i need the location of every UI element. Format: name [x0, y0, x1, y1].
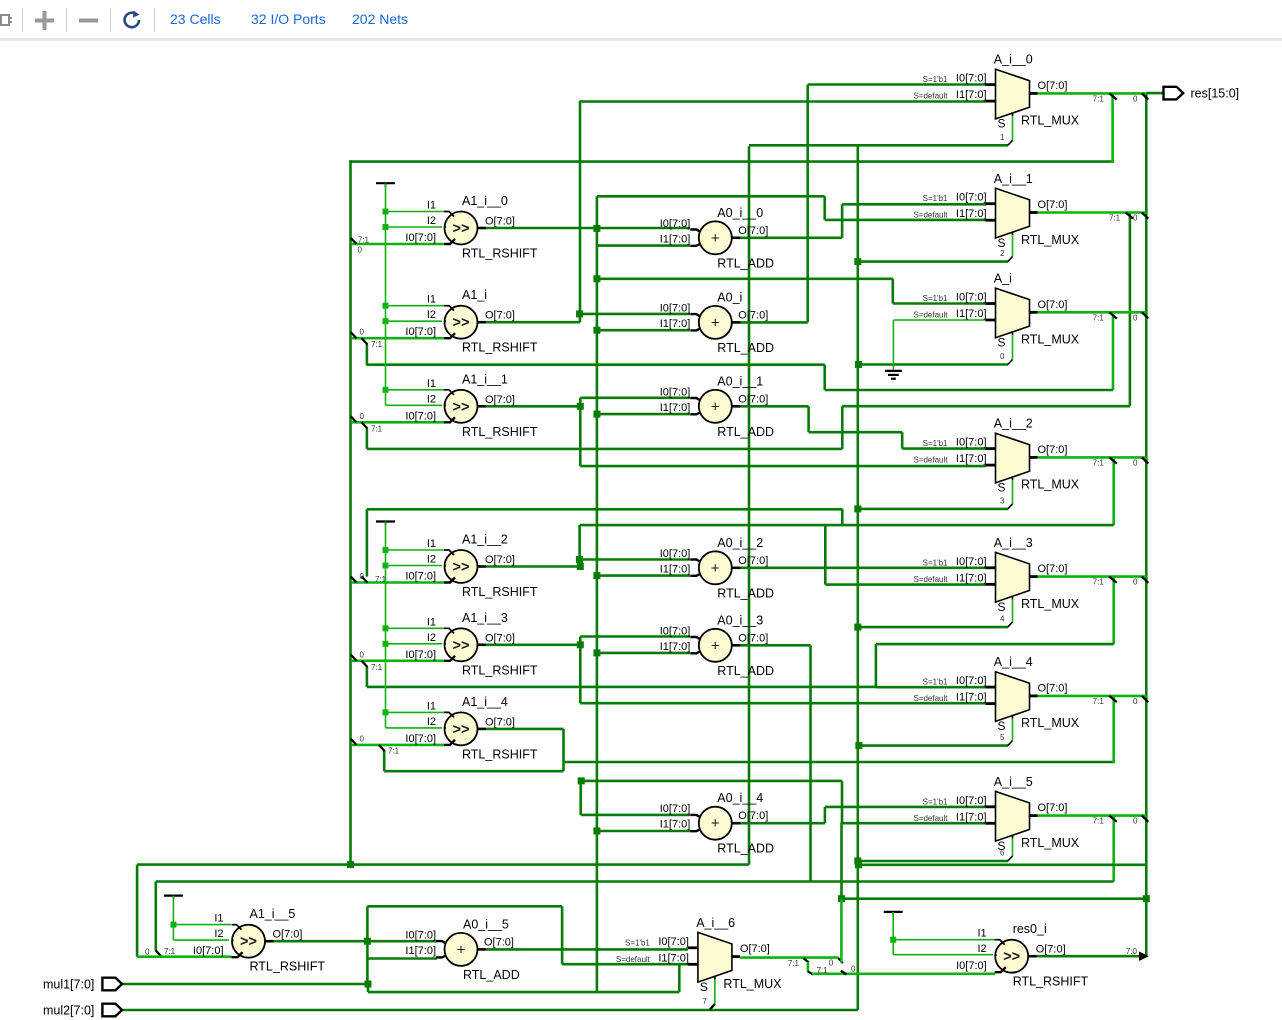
wire A0_i__3.I0 [580, 635, 690, 638]
wire A_i__1.I0 [842, 203, 986, 206]
svg-text:0: 0 [1133, 94, 1138, 103]
wire x137 vertical [136, 865, 139, 957]
wire riser x367 upper [366, 906, 369, 941]
svg-text:I1[7:0]: I1[7:0] [405, 945, 436, 957]
svg-text:I0[7:0]: I0[7:0] [956, 556, 987, 568]
shifter A1_i__3 (RTL_RSHIFT) [405, 611, 537, 678]
svg-text:I1[7:0]: I1[7:0] [956, 208, 987, 220]
junction const I1 [383, 209, 389, 215]
svg-text:I0[7:0]: I0[7:0] [405, 571, 436, 583]
toolbar zoom-in icon [33, 9, 56, 32]
svg-text:I1[7:0]: I1[7:0] [956, 453, 987, 465]
wire A0_i__5.I1 [367, 957, 437, 960]
wire x156 vertical [155, 882, 158, 951]
svg-text:7:1: 7:1 [1093, 94, 1105, 103]
wire A_i__0 7:1 vertical [1111, 93, 1114, 163]
wire jog y432 [809, 431, 903, 434]
junction const I1 [383, 709, 389, 715]
svg-text:RTL_RSHIFT: RTL_RSHIFT [462, 747, 538, 761]
wire x562 vertical [561, 906, 564, 964]
svg-text:I1: I1 [978, 928, 987, 940]
svg-text:I2: I2 [427, 215, 436, 227]
wire A_i__6 lower run to res0_i.I0 [812, 972, 995, 975]
wire S of A_i__4 [1012, 719, 1014, 741]
wire S of A_i__2 [1012, 480, 1014, 504]
junction y864 right [855, 861, 862, 868]
svg-text:I1: I1 [427, 200, 436, 212]
svg-text:I1: I1 [427, 538, 436, 550]
wire A_i__1.I1 step [823, 196, 826, 220]
svg-text:4: 4 [1000, 615, 1005, 624]
wire A_i__0.I1 [580, 100, 986, 103]
svg-text:S: S [998, 481, 1006, 495]
svg-text:mul2[7:0]: mul2[7:0] [43, 1004, 94, 1018]
junction trunk bottom [347, 861, 354, 868]
adder A0_i__3 (RTL_ADD) [660, 613, 774, 678]
svg-text:I0[7:0]: I0[7:0] [956, 73, 987, 85]
svg-text:S=1'b1: S=1'b1 [923, 678, 948, 687]
adder A0_i__5 (RTL_ADD) [405, 917, 519, 982]
svg-text:0: 0 [1000, 352, 1005, 361]
svg-text:>>: >> [453, 221, 470, 237]
svg-text:>>: >> [453, 315, 470, 331]
svg-text:I0[7:0]: I0[7:0] [405, 326, 436, 338]
svg-text:I0[7:0]: I0[7:0] [660, 548, 691, 560]
junction A0_i__2.I0 [576, 556, 583, 563]
junction mul1 x368 [365, 981, 372, 988]
svg-text:I1: I1 [427, 378, 436, 390]
svg-text:S: S [998, 117, 1006, 131]
svg-text:7:1: 7:1 [1093, 697, 1105, 706]
svg-text:RTL_MUX: RTL_MUX [1021, 233, 1080, 247]
wire mux row 5 output [1038, 695, 1147, 698]
wire A0_i__2.O to A_i__3.I0 [740, 566, 986, 569]
svg-text:I0[7:0]: I0[7:0] [405, 232, 436, 244]
wire A1_i.O [486, 321, 580, 324]
junction const I1 [383, 303, 389, 309]
wire const to I1 [386, 389, 445, 391]
svg-text:0: 0 [145, 948, 150, 957]
wire const to I2 [386, 727, 443, 729]
svg-text:+: + [711, 398, 720, 415]
wire A_i__3.I1 [825, 583, 986, 586]
adder A0_i__4 (RTL_ADD) [660, 791, 774, 856]
svg-text:I0[7:0]: I0[7:0] [660, 625, 691, 637]
wire riser to A_i__5.I1 bright part [840, 899, 843, 963]
junction A0_i__2.I1 [593, 572, 600, 579]
svg-text:A_i__1: A_i__1 [994, 172, 1033, 186]
constant one symbol lower [376, 520, 395, 522]
svg-text:I1[7:0]: I1[7:0] [956, 308, 987, 320]
svg-text:A_i__0: A_i__0 [994, 53, 1033, 67]
wire A_i__1.I1 [825, 219, 986, 222]
wire A_i__0.I1 riser x580 [579, 101, 582, 323]
junction const I1 [383, 625, 389, 631]
svg-text:A0_i__0: A0_i__0 [717, 206, 763, 220]
wire A_i__3 7:1 vertical [1112, 577, 1115, 645]
input port wire mul2 [122, 1009, 858, 1012]
wire riser to A0_i__1.I0 and A_i__2.I1 [579, 398, 582, 466]
svg-text:S=default: S=default [913, 211, 948, 220]
svg-text:RTL_RSHIFT: RTL_RSHIFT [462, 585, 538, 599]
wire A0_i__1.O drop [807, 406, 810, 432]
svg-text:O[7:0]: O[7:0] [1038, 199, 1068, 211]
shifter A1_i__0 (RTL_RSHIFT) [405, 194, 537, 261]
svg-text:>>: >> [453, 399, 470, 415]
svg-text:A1_i__4: A1_i__4 [462, 695, 508, 709]
wire trunk to A1 shifter row 5 I0 [352, 744, 444, 747]
svg-text:I1: I1 [214, 913, 223, 925]
svg-text:+: + [711, 560, 720, 577]
svg-text:O[7:0]: O[7:0] [273, 929, 303, 941]
svg-text:O[7:0]: O[7:0] [738, 393, 768, 405]
svg-text:+: + [711, 230, 720, 247]
svg-text:S=default: S=default [913, 814, 948, 823]
svg-text:+: + [711, 314, 720, 331]
wire riser x810 [809, 645, 812, 881]
wire A0_i__2.I0 [580, 558, 690, 561]
svg-text:I1: I1 [427, 616, 436, 628]
svg-text:O[7:0]: O[7:0] [738, 810, 768, 822]
wire mux row 4 output [1038, 575, 1147, 578]
svg-text:O[7:0]: O[7:0] [1038, 563, 1068, 575]
svg-text:0: 0 [1133, 817, 1138, 826]
wire A_i.I0 riser [891, 279, 894, 304]
wire A_i__4 7:1 horizontal [564, 761, 1114, 764]
svg-text:A0_i: A0_i [717, 290, 742, 304]
svg-text:7:1: 7:1 [1093, 817, 1105, 826]
wire const to I2 [386, 643, 443, 645]
junction A1_i__2.O [577, 563, 584, 570]
svg-text:O[7:0]: O[7:0] [485, 554, 515, 566]
wire A1_i__3.O [486, 643, 580, 646]
wire A_i__6 7:1 drop [807, 962, 810, 972]
wire A_i__5 7:1 vertical [1112, 816, 1115, 882]
svg-text:RTL_MUX: RTL_MUX [1021, 716, 1080, 730]
wire A1_i__5.O to A0_i__5.I0 [274, 940, 438, 943]
svg-text:I1[7:0]: I1[7:0] [660, 641, 691, 653]
wire A1_i__5.I2 [173, 939, 229, 941]
wire A0_i__4.I0 [581, 814, 690, 817]
wire const res0 [892, 912, 894, 955]
wire x841 vertical [840, 823, 843, 899]
svg-text:S=1'b1: S=1'b1 [923, 294, 948, 303]
svg-text:7:1: 7:1 [371, 340, 383, 349]
svg-text:RTL_ADD: RTL_ADD [717, 341, 774, 355]
svg-text:RTL_MUX: RTL_MUX [1021, 333, 1080, 347]
svg-text:I0[7:0]: I0[7:0] [956, 675, 987, 687]
wire const to I2 [386, 565, 443, 567]
svg-text:I0[7:0]: I0[7:0] [956, 795, 987, 807]
wire A1_i__4.O [486, 728, 564, 731]
junction A0_i.I0 [576, 310, 583, 317]
mux A_i__4 (RTL_MUX) [913, 655, 1079, 742]
svg-text:A_i__6: A_i__6 [696, 916, 735, 930]
svg-text:I1[7:0]: I1[7:0] [956, 572, 987, 584]
wire A1_i__3 7:1 branch [366, 667, 369, 687]
wire A_i__5.I0 [825, 806, 986, 809]
junction y279 [593, 275, 600, 282]
wire drop x842 c [841, 781, 844, 823]
wire A_i__1 7:1 vertical [1129, 212, 1132, 406]
svg-text:+: + [711, 637, 720, 654]
svg-text:RTL_ADD: RTL_ADD [717, 842, 774, 856]
svg-text:RTL_ADD: RTL_ADD [717, 425, 774, 439]
svg-text:S=default: S=default [616, 955, 651, 964]
wire A_i__0 7:1 branch horizontal [349, 160, 1114, 163]
junction A1_i__3.O [577, 641, 584, 648]
input port wire mul1 [122, 983, 368, 986]
svg-text:I0[7:0]: I0[7:0] [660, 803, 691, 815]
wire A_i__3 7:1 horizontal [876, 643, 1114, 646]
svg-text:S: S [998, 336, 1006, 350]
svg-text:>>: >> [453, 638, 470, 654]
svg-text:A_i__3: A_i__3 [994, 536, 1033, 550]
svg-text:>>: >> [1003, 949, 1020, 965]
svg-text:mul1[7:0]: mul1[7:0] [43, 978, 94, 992]
wire A_i__1 7:1 horizontal [842, 405, 1130, 408]
wire A1_i__4.O vertical [562, 729, 565, 771]
svg-text:I1[7:0]: I1[7:0] [956, 692, 987, 704]
svg-text:O[7:0]: O[7:0] [738, 632, 768, 644]
svg-text:I2: I2 [427, 393, 436, 405]
wire to A_i__4.I1 [580, 702, 986, 705]
svg-text:RTL_RSHIFT: RTL_RSHIFT [462, 247, 538, 261]
svg-text:7:1: 7:1 [164, 947, 176, 956]
wire mul1 jog lower [368, 991, 679, 994]
junction const I2 [383, 224, 389, 230]
wire A_i__2.I0 [902, 447, 986, 450]
adder A0_i__2 (RTL_ADD) [660, 536, 774, 601]
wire mul1 riser to A_i__6.I1 [678, 964, 681, 992]
svg-text:O[7:0]: O[7:0] [1038, 80, 1068, 92]
svg-text:S=1'b1: S=1'b1 [923, 797, 948, 806]
wire A0_i__5.O to A_i__6.I0 [486, 948, 688, 951]
wire trunk to A1 shifter row 2 I0 [352, 421, 444, 424]
wire S of A_i__5 [1012, 838, 1014, 856]
svg-text:S=default: S=default [913, 92, 948, 101]
svg-text:0: 0 [1133, 214, 1138, 223]
junction const I1 [383, 387, 389, 393]
wire A_i__1.I0 riser [841, 204, 844, 238]
svg-text:res[15:0]: res[15:0] [1191, 87, 1240, 101]
svg-text:I2: I2 [427, 632, 436, 644]
wire res0_i.O [1037, 955, 1141, 958]
svg-text:7:1: 7:1 [817, 966, 829, 975]
svg-text:A1_i__2: A1_i__2 [462, 533, 508, 547]
wire drop x824 to A_i 7:1 [823, 365, 826, 390]
junction const res0 [890, 937, 896, 943]
svg-text:RTL_ADD: RTL_ADD [717, 256, 774, 270]
svg-text:I1: I1 [427, 294, 436, 306]
wire y864 horizontal right [859, 863, 1147, 866]
svg-text:A1_i__3: A1_i__3 [462, 611, 508, 625]
wire mux row 2 output [1038, 311, 1147, 314]
wire A0_i__0.O [740, 237, 842, 240]
wire A_i__4.I0 [876, 686, 986, 689]
svg-text:RTL_ADD: RTL_ADD [717, 664, 774, 678]
junction A1_i__1.O [577, 403, 584, 410]
wire y906 horizontal [367, 905, 562, 908]
constant one symbol upper [376, 182, 395, 184]
wire A0_i__4.I1 [597, 830, 691, 833]
svg-text:RTL_RSHIFT: RTL_RSHIFT [462, 663, 538, 677]
svg-text:I1[7:0]: I1[7:0] [658, 952, 689, 964]
svg-text:O[7:0]: O[7:0] [1038, 802, 1068, 814]
adder A0_i__0 (RTL_ADD) [660, 206, 774, 270]
wire trunk to A1 shifter row 0 I0 [352, 243, 444, 246]
wire mux row 3 output [1038, 456, 1147, 459]
svg-text:I0[7:0]: I0[7:0] [405, 410, 436, 422]
wire mux row 1 output [1038, 211, 1147, 214]
wire A_i__5.I1 [842, 822, 986, 825]
wire const to I2 [386, 404, 443, 406]
junction x841 y899 [838, 895, 845, 902]
wire res0_i.I1 [893, 939, 995, 941]
wire A0_i__2.I1 [597, 574, 690, 577]
svg-text:O[7:0]: O[7:0] [485, 310, 515, 322]
wire A_i__4 7:1 vertical [1112, 696, 1115, 763]
wire A1_i__5.I1 [173, 924, 231, 926]
mux A_i__3 (RTL_MUX) [913, 536, 1079, 624]
shifter A1_i__4 (RTL_RSHIFT) [405, 695, 537, 762]
svg-text:I1[7:0]: I1[7:0] [660, 563, 691, 575]
toolbar zoom-out icon [77, 9, 100, 32]
wire A1_i__2 7:1 branch from above [366, 509, 369, 576]
svg-text:S: S [998, 719, 1006, 733]
wire A_i__5.I0 riser [824, 807, 827, 823]
svg-text:RTL_MUX: RTL_MUX [1021, 836, 1080, 850]
svg-text:S=default: S=default [913, 456, 948, 465]
svg-text:RTL_MUX: RTL_MUX [1021, 478, 1080, 492]
wire mul1 trunk vertical [349, 160, 352, 864]
junction const I2 [383, 318, 389, 324]
wire S of A_i [1012, 335, 1014, 359]
svg-text:I0[7:0]: I0[7:0] [956, 292, 987, 304]
shifter A1_i (RTL_RSHIFT) [405, 288, 537, 355]
svg-text:RTL_RSHIFT: RTL_RSHIFT [462, 425, 538, 439]
svg-text:I0[7:0]: I0[7:0] [956, 960, 987, 972]
wire trunk to A1 shifter row 4 I0 [352, 659, 444, 662]
wire constant chain upper [385, 183, 387, 405]
input port mul2[7:0] [102, 1004, 122, 1017]
svg-text:0: 0 [1133, 313, 1138, 322]
wire A_i__1 S net [858, 260, 1008, 263]
wire A1_i__1.O [486, 405, 580, 408]
svg-text:RTL_RSHIFT: RTL_RSHIFT [462, 341, 538, 355]
wire const chain bottom [172, 896, 174, 941]
svg-text:A1_i__0: A1_i__0 [462, 194, 508, 208]
wire A1_i__4 7:1 branch [383, 751, 386, 771]
wire A0_i__4.I0 riser [579, 781, 582, 815]
svg-text:0: 0 [1133, 697, 1138, 706]
svg-text:A0_i__3: A0_i__3 [717, 613, 763, 627]
mux A_i__1 (RTL_MUX) [913, 172, 1079, 258]
wire A1_i 7:1 branch [366, 344, 369, 365]
junction A0_i.I1 [593, 327, 600, 334]
wire A_i__2 7:1 vertical [1112, 459, 1115, 525]
svg-text:0: 0 [360, 328, 365, 337]
svg-text:S=default: S=default [913, 575, 948, 584]
svg-text:I1[7:0]: I1[7:0] [956, 89, 987, 101]
junction S net row6 [854, 858, 861, 865]
wire A_i__6.I1 [562, 963, 690, 966]
wire A_i 7:1 horizontal [825, 389, 1113, 392]
wire A_i__0 S net [749, 144, 1008, 147]
svg-text:A_i__5: A_i__5 [994, 775, 1033, 789]
junction A0_i__3.I1 [593, 649, 600, 656]
svg-text:I0[7:0]: I0[7:0] [405, 929, 436, 941]
svg-text:O[7:0]: O[7:0] [485, 632, 515, 644]
svg-text:S: S [700, 980, 708, 994]
wire A_i__4 S net [858, 744, 1008, 747]
svg-text:S=1'b1: S=1'b1 [923, 439, 948, 448]
junction A0_i__4.I1 [593, 828, 600, 835]
wire to A_i.I0 [597, 277, 893, 280]
svg-text:7:1: 7:1 [788, 959, 800, 968]
adder A0_i__1 (RTL_ADD) [660, 374, 774, 439]
svg-text:2: 2 [1000, 249, 1005, 258]
wire mux row 6 output [1038, 814, 1147, 817]
bus tap row 5 [351, 739, 357, 745]
junction A0_i__0.I0 [593, 225, 600, 232]
wire A0_i__0.I1 [597, 244, 690, 247]
svg-text:RTL_MUX: RTL_MUX [1021, 597, 1080, 611]
wire horizontal y781 [581, 780, 842, 783]
svg-text:I2: I2 [427, 716, 436, 728]
wire A1_i__1 7:1 branch [366, 428, 369, 449]
wire drop x902 [901, 432, 904, 448]
junction S net row4 [854, 624, 861, 631]
svg-text:7:1: 7:1 [1093, 578, 1105, 587]
svg-text:I1[7:0]: I1[7:0] [660, 402, 691, 414]
svg-text:I0[7:0]: I0[7:0] [658, 936, 689, 948]
svg-text:0: 0 [360, 734, 365, 743]
svg-text:RTL_RSHIFT: RTL_RSHIFT [250, 960, 326, 974]
svg-text:I0[7:0]: I0[7:0] [405, 733, 436, 745]
svg-text:0: 0 [851, 964, 856, 973]
wire A_i__2 S net [858, 508, 1008, 511]
shifter res0_i (RTL_RSHIFT) [956, 922, 1088, 989]
wire A0_i.O [740, 321, 808, 324]
svg-text:O[7:0]: O[7:0] [1038, 299, 1068, 311]
ground symbol [885, 371, 902, 379]
svg-text:>>: >> [453, 722, 470, 738]
wire const to I1 [386, 305, 445, 307]
svg-text:5: 5 [1000, 733, 1005, 742]
svg-text:7:1: 7:1 [371, 663, 383, 672]
wire vertical x749 [748, 146, 751, 864]
svg-text:I1[7:0]: I1[7:0] [660, 318, 691, 330]
svg-text:7:1: 7:1 [1093, 313, 1105, 322]
junction S net A_i [855, 361, 862, 368]
wire A0_i.I1 [597, 329, 690, 332]
svg-text:0: 0 [358, 246, 363, 255]
wire A_i 7:1 vertical [1112, 314, 1115, 390]
svg-text:I2: I2 [427, 554, 436, 566]
adder A0_i (RTL_ADD) [660, 290, 774, 355]
svg-text:I2: I2 [214, 928, 223, 940]
svg-text:A_i: A_i [994, 272, 1012, 286]
svg-text:>>: >> [453, 560, 470, 576]
wire mul2 S trunk vertical [856, 145, 859, 1010]
svg-text:+: + [457, 941, 466, 958]
constant one symbol res0 [884, 911, 903, 913]
junction const I1 [383, 547, 389, 553]
wire const to I1 [386, 211, 445, 213]
wire A_i__0.I0 [808, 83, 986, 86]
wire A_i__0.I0 riser [806, 85, 809, 323]
